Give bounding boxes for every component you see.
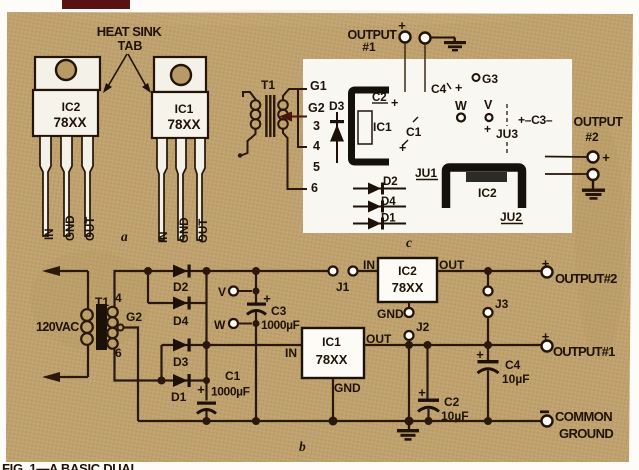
wire primary top [87, 271, 89, 310]
jumper JU3 [496, 104, 518, 154]
hole V [486, 114, 493, 121]
svg-text:4: 4 [115, 291, 122, 305]
IC2 pin 3 leg [82, 136, 93, 236]
output2 ground pad [588, 169, 599, 180]
wire primary bottom [87, 344, 89, 377]
node dot IC1 gnd [329, 417, 338, 426]
svg-text:COMMON: COMMON [555, 409, 612, 424]
svg-text:OUTPUT#2: OUTPUT#2 [555, 271, 617, 286]
svg-text:V: V [484, 98, 493, 112]
jumper J1 [329, 267, 358, 295]
regulator IC1 (schematic) [302, 328, 364, 378]
svg-text:#2: #2 [585, 130, 599, 144]
diode D1 (schematic) [173, 374, 191, 387]
svg-text:IN: IN [285, 346, 297, 360]
svg-text:G2: G2 [126, 310, 142, 324]
terminal output2 [542, 256, 553, 278]
svg-text:T1: T1 [261, 78, 275, 92]
svg-text:OUTPUT#1: OUTPUT#1 [553, 344, 615, 359]
wire J1 to IC2 [358, 270, 379, 272]
transformer T1 (schematic) [81, 304, 118, 350]
svg-text:IC1: IC1 [322, 335, 341, 349]
svg-text:+–C3–: +–C3– [518, 113, 553, 127]
svg-text:+: + [197, 382, 205, 397]
wire pad to ground (top) [431, 37, 456, 39]
jumper J2 [405, 302, 430, 340]
svg-text:FIG. 1—A BASIC DUAL: FIG. 1—A BASIC DUAL [2, 461, 138, 470]
svg-text:OUTPUT: OUTPUT [574, 115, 624, 129]
wire secondary top to rail [115, 271, 329, 307]
test point W [214, 318, 252, 332]
svg-text:JU2: JU2 [500, 210, 522, 224]
raw DC vertical (C1 node) [205, 271, 207, 401]
svg-text:+: + [418, 385, 426, 400]
svg-text:IC2: IC2 [398, 264, 417, 278]
top rail to J1 [252, 267, 260, 275]
svg-text:C2: C2 [444, 395, 460, 409]
svg-text:1000µF: 1000µF [261, 318, 300, 332]
svg-text:IC1: IC1 [373, 120, 392, 134]
svg-text:G1: G1 [310, 79, 327, 93]
IC2 pin 2 leg [61, 136, 72, 236]
wire D3 row [162, 344, 303, 346]
callout arrow to IC2 tab [103, 54, 127, 93]
wire branch to hole 4 [298, 89, 307, 147]
wire IC2 out to terminal [437, 270, 542, 272]
node dot J3 top [484, 267, 492, 275]
capacitor C3 [247, 303, 266, 315]
svg-text:78XX: 78XX [316, 352, 348, 367]
svg-text:+: + [455, 81, 462, 95]
AC arrow top [42, 266, 88, 276]
output1 positive pad [400, 32, 411, 43]
label C2 (layout) [372, 92, 398, 110]
node dot C2 top [424, 341, 432, 349]
node dot J2 on common rail [405, 417, 414, 426]
diode D4 (layout) [353, 201, 406, 213]
IC2 mounting hole [56, 60, 76, 80]
regulator IC2 body [33, 90, 98, 136]
regulator IC1 heat-sink tab [154, 57, 206, 92]
svg-text:C2: C2 [372, 92, 387, 104]
svg-text:78XX: 78XX [53, 115, 86, 130]
capacitor C4 [478, 360, 499, 421]
wire IC1 gnd down [332, 378, 334, 421]
svg-text:C4: C4 [431, 82, 447, 96]
node dot common C3 [252, 417, 260, 425]
transformer T1 (layout) [251, 78, 288, 137]
svg-text:+: + [484, 122, 491, 136]
svg-text:78XX: 78XX [167, 117, 200, 132]
C3 vertical bottom [255, 312, 257, 421]
wire board to output2 ground pad [545, 173, 588, 175]
svg-text:IC1: IC1 [175, 102, 194, 116]
svg-text:3: 3 [313, 119, 320, 133]
wire pad2 into board [424, 44, 426, 92]
hole W [457, 114, 465, 122]
svg-text:+: + [476, 347, 484, 362]
svg-text:GND: GND [377, 307, 404, 321]
callout arrow to IC1 tab [128, 54, 151, 93]
IC1 pin 3 leg [195, 138, 205, 240]
node dot C4 bottom [484, 417, 492, 425]
test point V [218, 285, 252, 299]
svg-text:+: + [602, 150, 610, 165]
IC1 pin 1 leg [157, 138, 167, 240]
svg-text:#1: #1 [362, 40, 376, 54]
svg-text:JU1: JU1 [415, 166, 437, 180]
output2 positive pad [588, 152, 599, 163]
svg-text:C3: C3 [271, 304, 287, 318]
jumper J3 [484, 271, 509, 345]
diode D2 (schematic) [173, 265, 191, 278]
diode D4 (schematic) [173, 297, 191, 310]
svg-text:OUT: OUT [85, 217, 97, 241]
regulator IC1 body [152, 92, 208, 138]
IC2 heat-sink bracket (layout) [446, 168, 522, 209]
node dot C1 top rail [203, 267, 211, 275]
AC arrow bottom [42, 372, 88, 382]
svg-text:D2: D2 [383, 176, 398, 188]
wire with arrow to hole 3 [279, 112, 307, 122]
node dot common C1 [203, 417, 211, 425]
terminal common ground [540, 411, 553, 427]
wire D3 to D1 vertical [160, 345, 162, 381]
regulator IC2 heat-sink tab [35, 57, 100, 90]
wire center tap G2 [118, 325, 139, 422]
ground symbol (output2) [582, 180, 605, 200]
wire dot to D4 row [147, 271, 149, 303]
wire J2 down to ground [408, 340, 410, 421]
svg-text:W: W [214, 318, 226, 332]
IC1 body (layout) [358, 111, 372, 144]
node dot D1 row left [158, 377, 166, 385]
output1 ground pad [420, 33, 431, 44]
svg-text:GND: GND [179, 217, 191, 243]
svg-text:J3: J3 [495, 297, 509, 311]
label C1 (layout) [399, 117, 422, 155]
IC2 pin 1 leg [40, 136, 51, 236]
wire pad1 into board [404, 43, 406, 92]
paper mottling [30, 10, 625, 360]
svg-text:GND: GND [65, 215, 77, 241]
jumper JU2 [500, 210, 523, 224]
T1 primary bottom lead [241, 129, 256, 156]
jumper JU1 [415, 166, 438, 180]
wire T1 secondary bottom to hole 6 [283, 129, 307, 189]
terminal output1 [542, 329, 553, 352]
svg-text:C4: C4 [505, 358, 521, 372]
wire T1 secondary top to G1 [283, 89, 307, 100]
IC2 body (layout) [466, 172, 507, 182]
svg-text:6: 6 [115, 346, 122, 360]
regulator IC2 (schematic) [378, 258, 437, 302]
svg-text:78XX: 78XX [392, 280, 424, 295]
capacitor C1 [197, 402, 216, 422]
svg-text:G2: G2 [308, 101, 325, 115]
ground symbol (top) [444, 38, 466, 52]
svg-text:D1: D1 [171, 390, 187, 404]
svg-text:120VAC: 120VAC [36, 320, 79, 334]
T1 primary top lead [243, 92, 256, 100]
common rail [138, 420, 542, 422]
svg-text:c: c [406, 235, 412, 250]
svg-text:IN: IN [44, 229, 56, 241]
svg-text:J1: J1 [336, 280, 350, 294]
svg-text:D2: D2 [173, 280, 189, 294]
svg-text:T1: T1 [95, 295, 109, 309]
svg-text:IN: IN [363, 258, 375, 272]
svg-text:IN: IN [158, 232, 170, 244]
node dot V [253, 288, 260, 295]
svg-text:IC2: IC2 [478, 186, 497, 200]
svg-text:IC2: IC2 [62, 100, 81, 114]
hole G3 [473, 74, 480, 81]
PCB white board [303, 59, 572, 233]
svg-text:5: 5 [313, 160, 320, 174]
wire secondary bottom to D1 row [115, 349, 207, 381]
svg-text:JU3: JU3 [496, 127, 518, 141]
diode D3 (layout) [330, 112, 344, 163]
C4 vertical top [487, 345, 489, 360]
svg-text:4: 4 [313, 139, 320, 153]
wire board to output2 positive pad [545, 156, 588, 159]
svg-text:C1: C1 [406, 125, 422, 139]
svg-text:C1: C1 [225, 369, 241, 383]
svg-text:10µF: 10µF [502, 372, 530, 386]
svg-text:D4: D4 [173, 314, 189, 328]
node dot C2 bottom [425, 417, 433, 425]
IC1 heat-sink bracket (layout) [352, 90, 390, 162]
svg-text:+: + [399, 141, 406, 155]
svg-text:G3: G3 [482, 72, 498, 86]
svg-text:TAB: TAB [118, 39, 143, 53]
IC1 mounting hole [171, 65, 191, 85]
node dot C4 top [484, 341, 492, 349]
node dot D1 row [203, 377, 210, 384]
svg-text:V: V [218, 285, 226, 299]
svg-text:GROUND: GROUND [559, 426, 613, 441]
T1 primary lead end dot [238, 153, 242, 157]
svg-text:b: b [299, 439, 306, 454]
red header bar [62, 0, 130, 9]
wire D4 row [148, 302, 207, 304]
IC1 pin 2 leg [176, 138, 186, 240]
diode D1 (layout) [353, 218, 406, 230]
diode D3 (schematic) [173, 339, 191, 352]
diode D2 (layout) [353, 183, 406, 195]
svg-text:GND: GND [334, 381, 361, 395]
ground symbol (schematic) [397, 421, 419, 441]
C3 vertical top [255, 271, 257, 303]
svg-text:1000µF: 1000µF [211, 385, 250, 399]
svg-text:D3: D3 [329, 99, 345, 113]
svg-text:+: + [391, 96, 398, 110]
svg-text:J2: J2 [416, 320, 430, 334]
label C4 (layout) [431, 81, 462, 96]
svg-text:W: W [455, 99, 467, 113]
wire IC1 out rail [364, 344, 542, 346]
node dot D3 row [203, 341, 211, 349]
svg-text:OUT: OUT [198, 219, 210, 243]
svg-text:a: a [121, 229, 128, 244]
node dot W [253, 320, 260, 327]
node dot top rail [144, 267, 152, 275]
C2 vertical top [426, 345, 428, 399]
svg-text:6: 6 [311, 181, 318, 195]
node dot J2 on out rail [405, 341, 413, 349]
svg-text:HEAT SINK: HEAT SINK [97, 24, 163, 39]
svg-text:D3: D3 [173, 355, 189, 369]
capacitor C2 [418, 399, 439, 422]
